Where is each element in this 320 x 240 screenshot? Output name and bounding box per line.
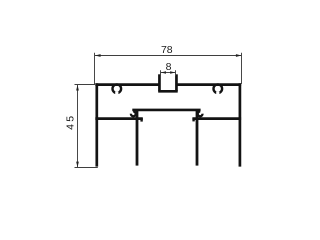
dim 8 right extension line (175, 70, 177, 76)
center channel right wall (175, 74, 178, 91)
web left end lip (140, 118, 142, 122)
dim 78 line (95, 55, 242, 57)
dim 45 top extension line (75, 84, 96, 86)
shelf between legs (132, 109, 200, 112)
shelf left hook (131, 112, 136, 117)
svg-text:78: 78 (161, 44, 173, 56)
screw boss right (214, 84, 223, 93)
dim 8 left extension line (160, 70, 162, 76)
dim 78 left extension line (94, 53, 96, 84)
svg-text:45: 45 (64, 114, 76, 130)
dim 78 right extension line (241, 53, 243, 84)
right wall (239, 83, 242, 166)
dim 8 left arrow (161, 71, 166, 74)
dim 45 bottom arrow (76, 162, 79, 168)
left wall (95, 83, 98, 166)
dim 78 left arrow (95, 54, 101, 57)
middle web left segment (95, 117, 143, 120)
top flange right segment (176, 83, 241, 86)
center channel bottom (158, 90, 178, 93)
center channel left wall (158, 74, 161, 91)
middle web right segment (192, 117, 241, 120)
screw boss left (113, 84, 122, 93)
top flange left segment (95, 83, 159, 86)
left leg (136, 111, 139, 166)
right leg (196, 111, 199, 166)
dim 8 line (161, 72, 175, 74)
dim 45 top arrow (76, 85, 79, 91)
dim 8 right arrow (170, 71, 175, 74)
dim 45 line (77, 85, 79, 167)
web right end lip (192, 118, 194, 121)
dim 78 right arrow (236, 54, 242, 57)
shelf right hook (198, 112, 203, 117)
svg-text:8: 8 (166, 61, 172, 73)
dim 45 bottom extension line (75, 167, 98, 169)
